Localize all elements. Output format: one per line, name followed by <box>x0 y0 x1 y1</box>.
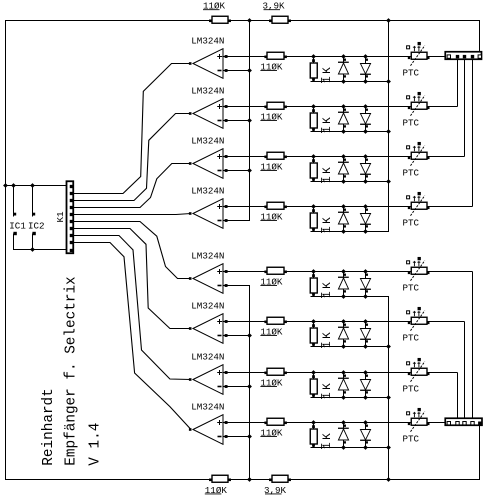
wire: - input row 1 to reference bus <box>223 70 250 72</box>
junction: - input row 7 on reference bus <box>247 384 252 389</box>
connector K2 (top right) <box>445 52 481 60</box>
wire: top-right drop to connector K2 <box>479 20 481 53</box>
wire: K1 pin 5 to op-amp row 4 output <box>73 214 191 215</box>
label PTC row 5 <box>403 283 420 294</box>
diode D3b row 3 <box>360 157 371 182</box>
label LM324N row 1 <box>191 36 224 47</box>
diode D2b row 2 <box>360 107 371 132</box>
junction: D6b top node <box>363 319 368 349</box>
pin: op-amp + input row 2 <box>225 105 228 108</box>
junction: rail row 1 to right bus <box>386 79 391 84</box>
label PTC row 2 <box>403 118 420 129</box>
wire: bottom supply line <box>5 479 480 481</box>
junction: D3b top node <box>363 154 368 184</box>
label LM324N row 2 <box>191 86 224 97</box>
wire: K1 pin 8 to op-amp row 7 output <box>73 236 191 380</box>
svg-text:LM324N: LM324N <box>191 136 224 147</box>
resistor R2 3,9K (top) <box>269 16 291 23</box>
svg-text:PTC: PTC <box>403 384 420 395</box>
junction: rail row 3 to right bus <box>386 179 391 184</box>
resistor 1K row 7 <box>310 373 317 398</box>
pin: op-amp - input row 7 <box>225 385 228 388</box>
diode D5b row 5 <box>360 272 371 297</box>
junction: - input row 6 on reference bus <box>247 333 252 338</box>
wire: K1 pin 7 to op-amp row 6 output <box>73 229 191 329</box>
diode D7a row 7 <box>338 373 349 398</box>
thermistor PTC row 4 <box>407 192 430 216</box>
resistor 110K row 6 <box>264 317 287 324</box>
wire: PTC row 5 down to connector K3 <box>472 272 474 422</box>
label PTC row 4 <box>403 218 420 229</box>
label 3,9K (bottom) <box>264 485 287 496</box>
svg-text:V 1.4: V 1.4 <box>88 423 104 466</box>
resistor R1 110K (top) <box>209 16 231 23</box>
label 110K row 5 <box>260 276 283 287</box>
wire: - input row 7 to reference bus <box>223 386 250 388</box>
pin: op-amp - input row 8 <box>225 435 228 438</box>
label LM324N row 3 <box>191 136 224 147</box>
junction: D4b top node <box>363 204 368 234</box>
pin: op-amp + input row 6 <box>225 320 228 323</box>
label LM324N row 6 <box>191 301 224 312</box>
label LM324N row 8 <box>191 402 224 413</box>
connector K1 <box>67 181 74 253</box>
label 1K row 2 <box>322 115 334 133</box>
svg-text:1K: 1K <box>322 280 334 298</box>
pin: op-amp output row 6 <box>189 327 192 330</box>
wire: reference bus (top group) <box>249 20 251 221</box>
wire: V- rail to K1 <box>14 249 67 251</box>
resistor 110K row 7 <box>264 368 287 375</box>
IC2 power pins <box>32 186 35 251</box>
svg-text:K1: K1 <box>55 211 66 223</box>
label PTC row 3 <box>403 168 420 179</box>
label LM324N row 7 <box>191 352 224 363</box>
junction: D3a top node <box>341 154 346 184</box>
junction: + net to 1K row 8 <box>311 420 316 425</box>
op-amp row 7 (LM324N) <box>193 365 223 395</box>
pin: op-amp + input row 8 <box>225 421 228 424</box>
svg-text:LM324N: LM324N <box>191 301 224 312</box>
wire: K1 pin 6 to op-amp row 5 output <box>73 222 191 279</box>
label PTC row 8 <box>403 434 420 445</box>
svg-text:PTC: PTC <box>403 283 420 294</box>
pin: op-amp output row 3 <box>189 162 192 165</box>
diode D6a row 6 <box>338 322 349 347</box>
junction: D4a top node <box>341 204 346 234</box>
label 1K row 8 <box>322 431 334 449</box>
junction: D2b top node <box>363 104 368 134</box>
resistor 110K row 3 <box>264 152 287 159</box>
svg-text:1K: 1K <box>322 115 334 133</box>
wire: + input net row 2 <box>223 106 458 108</box>
pin: op-amp output row 4 <box>189 212 192 215</box>
pin: op-amp + input row 5 <box>225 270 228 273</box>
label 110K row 3 <box>260 161 283 172</box>
junction: + net to 1K row 4 <box>311 204 316 209</box>
pin: op-amp + input row 4 <box>225 205 228 208</box>
diode D1a row 1 <box>338 57 349 82</box>
label 1K row 1 <box>322 65 334 83</box>
junction: D5a top node <box>341 269 346 299</box>
junction: + net to 1K row 3 <box>311 154 316 159</box>
diode D4b row 4 <box>360 207 371 232</box>
svg-text:PTC: PTC <box>403 218 420 229</box>
thermistor PTC row 6 <box>407 307 430 331</box>
label 110K (bottom) <box>205 485 228 496</box>
resistor 1K row 1 <box>310 57 317 82</box>
label 1K row 4 <box>322 215 334 233</box>
label 110K row 7 <box>260 377 283 388</box>
junction: D1a top node <box>341 54 346 84</box>
junction: D1b top node <box>363 54 368 84</box>
junction: top divider node <box>247 18 252 23</box>
label 1K row 5 <box>322 280 334 298</box>
svg-text:1K: 1K <box>322 215 334 233</box>
pin: op-amp output row 1 <box>189 62 192 65</box>
resistor 110K row 2 <box>264 102 287 109</box>
wire: + input net row 6 <box>223 321 465 323</box>
junction: + net to 1K row 2 <box>311 104 316 109</box>
junction: - input row 2 on reference bus <box>247 118 252 123</box>
pin: op-amp - input row 4 <box>225 219 228 222</box>
svg-text:IC2: IC2 <box>28 220 45 231</box>
svg-text:1K: 1K <box>322 381 334 399</box>
label title Empfänger f. Selectrix <box>64 276 80 465</box>
diode D3a row 3 <box>338 157 349 182</box>
junction: D7b top node <box>363 370 368 400</box>
wire: PTC row 2 up to connector K2 <box>457 58 459 107</box>
wire: network rail row 7 <box>311 397 390 399</box>
wire: network rail row 4 <box>311 231 390 233</box>
label 110K row 8 <box>260 427 283 438</box>
junction: rail row 7 to right bus <box>386 395 391 400</box>
label PTC row 1 <box>403 68 420 79</box>
pin: op-amp - input row 3 <box>225 169 228 172</box>
wire: V+ rail to K1 <box>5 185 67 187</box>
resistor 1K row 8 <box>310 423 317 448</box>
pin: op-amp output row 7 <box>189 378 192 381</box>
op-amp row 2 (LM324N) <box>193 99 223 129</box>
junction: V+ rail at IC1 <box>11 183 16 188</box>
diode D4a row 4 <box>338 207 349 232</box>
op-amp row 5 (LM324N) <box>193 264 223 294</box>
junction: D8b top node <box>363 420 368 450</box>
thermistor PTC row 2 <box>407 92 430 116</box>
wire: - input row 2 to reference bus <box>223 120 250 122</box>
svg-text:PTC: PTC <box>403 333 420 344</box>
label 1K row 6 <box>322 330 334 348</box>
resistor R3 110K (bottom) <box>209 475 231 482</box>
connector K3 (bottom right) <box>445 418 482 425</box>
wire: K1 pin 4 to op-amp row 3 output <box>73 164 191 208</box>
junction: - input row 3 on reference bus <box>247 168 252 173</box>
op-amp row 8 (LM324N) <box>193 415 223 445</box>
wire: left supply rail <box>5 20 7 480</box>
pin: op-amp - input row 1 <box>225 69 228 72</box>
wire: network rail row 1 <box>311 81 390 83</box>
resistor 110K row 5 <box>264 267 287 274</box>
svg-text:PTC: PTC <box>403 168 420 179</box>
wire: network rail row 3 <box>311 181 390 183</box>
junction: D7a top node <box>341 370 346 400</box>
wire: network rail row 6 <box>311 346 390 348</box>
wire: bottom-right rise from connector K3 <box>479 425 481 481</box>
wire: PTC row 6 down to connector K3 <box>464 322 466 422</box>
junction: top line to right bus <box>386 18 391 23</box>
wire: right return bus (bottom group) <box>388 297 390 481</box>
thermistor PTC row 1 <box>407 42 430 66</box>
resistor 1K row 5 <box>310 272 317 297</box>
label LM324N row 5 <box>191 251 224 262</box>
wire: - input row 8 to reference bus <box>223 436 250 438</box>
resistor 1K row 2 <box>310 107 317 132</box>
label title Reinhardt <box>41 388 57 465</box>
thermistor PTC row 7 <box>407 358 430 382</box>
svg-text:1K: 1K <box>322 65 334 83</box>
wire: + input net row 8 <box>223 422 446 424</box>
svg-text:1K: 1K <box>322 431 334 449</box>
junction: D5b top node <box>363 269 368 299</box>
resistor R4 3,9K (bottom) <box>269 475 291 482</box>
resistor 110K row 8 <box>264 418 287 425</box>
pin: op-amp - input row 2 <box>225 119 228 122</box>
svg-text:PTC: PTC <box>403 118 420 129</box>
diode D8b row 8 <box>360 423 371 448</box>
thermistor PTC row 3 <box>407 142 430 166</box>
wire: - input row 3 to reference bus <box>223 170 250 172</box>
svg-text:IC1: IC1 <box>9 220 26 231</box>
thermistor PTC row 8 <box>407 408 430 432</box>
svg-text:LM324N: LM324N <box>191 402 224 413</box>
label PTC row 7 <box>403 384 420 395</box>
wire: network rail row 8 <box>311 447 390 449</box>
junction: D2a top node <box>341 104 346 134</box>
wire: K1 pin 2 to op-amp row 1 output <box>73 64 191 194</box>
junction: + net to 1K row 6 <box>311 319 316 324</box>
label 1K row 7 <box>322 381 334 399</box>
wire: + input net row 1 <box>223 56 446 58</box>
wire: + input net row 5 <box>223 271 473 273</box>
junction: D8a top node <box>341 420 346 450</box>
op-amp row 1 (LM324N) <box>193 49 223 79</box>
op-amp row 6 (LM324N) <box>193 314 223 344</box>
wire: - input row 5 to reference bus <box>223 285 250 287</box>
junction: rail row 8 to right bus <box>386 445 391 450</box>
svg-text:1K: 1K <box>322 330 334 348</box>
svg-text:LM324N: LM324N <box>191 186 224 197</box>
diode D2a row 2 <box>338 107 349 132</box>
resistor 110K row 1 <box>264 52 287 59</box>
pin: op-amp + input row 3 <box>225 155 228 158</box>
diode D6b row 6 <box>360 322 371 347</box>
label IC2 <box>28 220 45 231</box>
svg-text:LM324N: LM324N <box>191 352 224 363</box>
junction: + net to 1K row 7 <box>311 370 316 375</box>
svg-text:LM324N: LM324N <box>191 86 224 97</box>
junction: left rail to V+ rail <box>3 183 8 188</box>
wire: PTC row 7 down to connector K3 <box>457 373 459 422</box>
pin: op-amp - input row 6 <box>225 334 228 337</box>
wire: + input net row 3 <box>223 156 465 158</box>
label LM324N row 4 <box>191 186 224 197</box>
junction: V- rail at IC2 <box>30 247 35 252</box>
label 110K row 1 <box>260 61 283 72</box>
wire: K1 pin 3 to op-amp row 2 output <box>73 114 191 201</box>
diode D7b row 7 <box>360 373 371 398</box>
label 1K row 3 <box>322 165 334 183</box>
label title V 1.4 <box>88 423 104 466</box>
diode D1b row 1 <box>360 57 371 82</box>
wire: - input row 6 to reference bus <box>223 335 250 337</box>
label 110K row 2 <box>260 111 283 122</box>
wire: right return bus (top group) <box>388 20 390 232</box>
svg-text:LM324N: LM324N <box>191 251 224 262</box>
pin: op-amp + input row 1 <box>225 55 228 58</box>
diode D8a row 8 <box>338 423 349 448</box>
junction: bottom line to right bus <box>386 477 391 482</box>
thermistor PTC row 5 <box>407 257 430 281</box>
wire: network rail row 5 <box>311 296 390 298</box>
wire: - input row 4 to reference bus <box>223 220 250 222</box>
resistor 110K row 4 <box>264 202 287 209</box>
junction: V+ rail at IC2 <box>30 183 35 188</box>
pin: op-amp output row 8 <box>189 428 192 431</box>
resistor 1K row 3 <box>310 157 317 182</box>
junction: - input row 1 on reference bus <box>247 68 252 73</box>
svg-text:PTC: PTC <box>403 434 420 445</box>
pin: op-amp + input row 7 <box>225 371 228 374</box>
label IC1 <box>9 220 26 231</box>
junction: D6a top node <box>341 319 346 349</box>
wire: K1 pin 9 to op-amp row 8 output <box>73 243 191 430</box>
svg-text:Reinhardt: Reinhardt <box>41 388 57 465</box>
op-amp row 4 (LM324N) <box>193 199 223 229</box>
label 110K (top) <box>203 1 226 12</box>
wire: PTC row 3 up to connector K2 <box>464 58 466 157</box>
pin: op-amp output row 2 <box>189 112 192 115</box>
junction: + net to 1K row 5 <box>311 269 316 274</box>
junction: - input row 8 on reference bus <box>247 434 252 439</box>
label 110K row 4 <box>260 211 283 222</box>
wire: + input net row 7 <box>223 372 458 374</box>
svg-text:1K: 1K <box>322 165 334 183</box>
wire: top supply line <box>5 20 480 22</box>
pin: op-amp - input row 5 <box>225 284 228 287</box>
wire: PTC row 4 up to connector K2 <box>472 58 474 207</box>
label 110K row 6 <box>260 326 283 337</box>
label K1 <box>55 211 66 223</box>
wire: + input net row 4 <box>223 206 473 208</box>
wire: reference bus (bottom group) <box>249 286 251 481</box>
svg-text:LM324N: LM324N <box>191 36 224 47</box>
op-amp row 3 (LM324N) <box>193 149 223 179</box>
resistor 1K row 4 <box>310 207 317 232</box>
junction: rail row 6 to right bus <box>386 344 391 349</box>
pin: op-amp output row 5 <box>189 277 192 280</box>
resistor 1K row 6 <box>310 322 317 347</box>
svg-text:Empfänger f. Selectrix: Empfänger f. Selectrix <box>64 276 80 465</box>
junction: rail row 2 to right bus <box>386 129 391 134</box>
label PTC row 6 <box>403 333 420 344</box>
wire: network rail row 2 <box>311 131 390 133</box>
IC1 power pins <box>13 186 16 251</box>
label 3,9K (top) <box>263 1 286 12</box>
diode D5a row 5 <box>338 272 349 297</box>
junction: + net to 1K row 1 <box>311 54 316 59</box>
junction: bottom divider node <box>247 477 252 482</box>
svg-text:PTC: PTC <box>403 68 420 79</box>
